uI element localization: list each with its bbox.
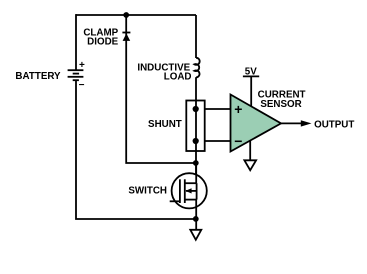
svg-text:SENSOR: SENSOR [260,99,301,110]
svg-text:OUTPUT: OUTPUT [314,119,354,130]
svg-text:+: + [234,101,242,117]
svg-text:DIODE: DIODE [87,37,118,48]
svg-text:+: + [79,60,85,71]
svg-text:SHUNT: SHUNT [148,119,182,130]
svg-text:LOAD: LOAD [164,72,192,83]
svg-text:−: − [79,80,85,91]
svg-text:−: − [234,133,242,149]
svg-text:SWITCH: SWITCH [128,185,167,196]
svg-text:5V: 5V [245,66,257,77]
svg-text:BATTERY: BATTERY [15,71,61,82]
